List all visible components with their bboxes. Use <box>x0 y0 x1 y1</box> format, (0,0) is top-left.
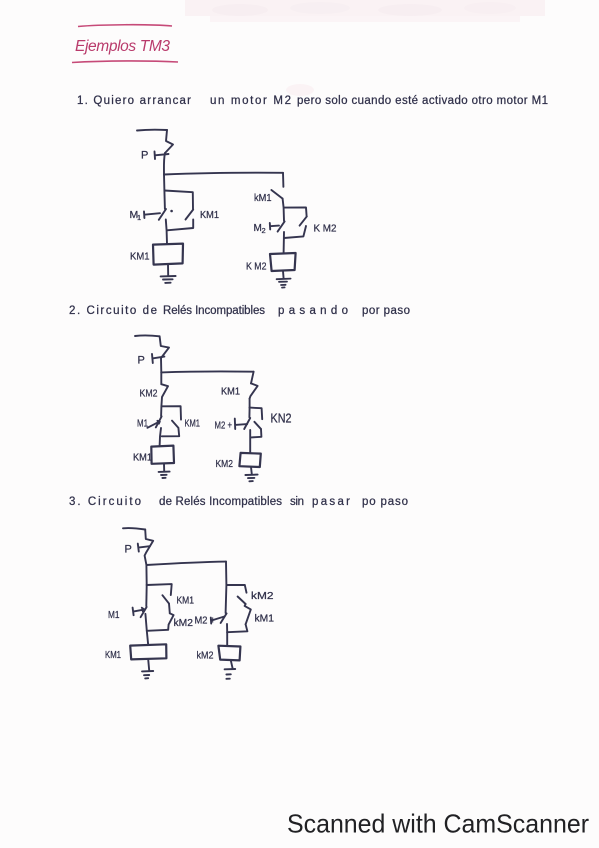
svg-text:M2 +: M2 + <box>215 420 233 432</box>
C1 P actuator <box>155 152 169 160</box>
C3 left main down to loop <box>145 565 147 585</box>
C1 M2 actuator <box>270 223 279 229</box>
svg-text:kM2: kM2 <box>197 650 214 662</box>
C3 wire coil to ground <box>231 660 233 668</box>
svg-text:K M2: K M2 <box>314 223 337 235</box>
C3 ground left <box>142 671 153 678</box>
C3 left seal loop top + right <box>147 584 172 595</box>
svg-text:kM2: kM2 <box>251 590 274 602</box>
C2 wire P to node <box>160 358 162 372</box>
C1 wire node to seal loop <box>163 175 165 191</box>
svg-text:kM2: kM2 <box>174 617 194 629</box>
C2 wire coil to ground <box>250 467 253 474</box>
C3 ground right <box>225 669 236 679</box>
C1 top supply rail <box>137 129 167 132</box>
C3 M1 actuator arrow <box>133 608 145 616</box>
C3 wire M1 to loop bottom <box>145 614 146 631</box>
C2 coil KM1 <box>151 446 174 464</box>
C3 right seal loop lower + bottom <box>227 624 247 632</box>
C2 right seal loop top + right <box>250 408 263 420</box>
C1 seal loop top + right side <box>164 191 193 209</box>
svg-text:Scanned with CamScanner: Scanned with CamScanner <box>287 809 589 839</box>
C2 KM1 interlock contact (NC) right <box>250 383 258 398</box>
C2 ground right <box>245 475 257 482</box>
C1 KM2 seal contact <box>300 216 307 225</box>
svg-text:KM1: KM1 <box>130 251 150 263</box>
C1 wire coil to ground <box>282 271 285 278</box>
C1 wire KM1 to M2 <box>283 199 284 221</box>
C3 labels <box>105 544 274 662</box>
C1 wire to right branch <box>164 173 283 175</box>
C2 top supply rail <box>135 334 160 337</box>
C2 right seal loop lower + bottom <box>251 429 261 437</box>
C1 labels <box>130 150 337 273</box>
svg-text:de Relés Incompatibles: de Relés Incompatibles <box>159 496 282 508</box>
C2 main vertical loop-top to M1 contact <box>160 406 162 416</box>
C3 M2 contact (NO) <box>221 613 227 623</box>
C2 right branch vertical <box>251 372 254 384</box>
C1 M2 contact (NO) <box>278 221 285 231</box>
svg-text:KM2: KM2 <box>140 388 158 400</box>
C3 right main vertical <box>225 585 228 613</box>
C3 wire M2 to loop bottom <box>226 624 228 632</box>
C2 P actuator <box>152 354 164 363</box>
svg-text:KM1: KM1 <box>133 452 152 464</box>
C3 pushbutton P (NC) <box>145 530 154 565</box>
C1 KM1 contact (NO) right branch <box>271 190 282 199</box>
svg-text:Ejemplos TM3: Ejemplos TM3 <box>75 38 170 55</box>
sentence 2 <box>69 305 410 317</box>
svg-text:KM1: KM1 <box>177 595 195 607</box>
faint pink bleed-through top <box>185 0 545 96</box>
svg-text:KN2: KN2 <box>271 412 292 426</box>
C2 M2 contact (NO) <box>244 418 250 429</box>
svg-text:3. Circuito: 3. Circuito <box>69 496 141 508</box>
C3 KM2 interlock (NC) in loop <box>168 613 173 629</box>
svg-text:un motor M2: un motor M2 <box>210 95 291 107</box>
C3 P actuator <box>138 544 150 552</box>
C3 KM1 interlock (NC) in right loop <box>245 604 251 624</box>
C2 left seal loop lower + bottom <box>162 428 179 437</box>
C2 wire M1 to coil <box>160 428 161 446</box>
C3 KM1 seal contact left <box>162 595 169 603</box>
svg-text:KM1: KM1 <box>221 386 240 398</box>
C2 M2 actuator <box>235 419 247 429</box>
C3 M1 contact (NO) <box>141 607 147 617</box>
svg-text:Relés Incompatibles: Relés Incompatibles <box>163 305 265 317</box>
sentence 1 <box>77 95 548 107</box>
C3 coil KM1 <box>130 644 166 659</box>
svg-text:P: P <box>141 150 148 162</box>
C2 left seal loop top + right <box>161 406 181 419</box>
svg-text:P: P <box>125 544 132 556</box>
C3 left seal loop bottom <box>147 630 168 631</box>
C3 main vertical loop-top to M1 contact <box>145 585 147 606</box>
C1 M1 actuator <box>144 212 160 219</box>
C1 wire M2 to coil <box>283 232 285 253</box>
C3 wire to coil <box>226 632 228 645</box>
sentence 3 <box>69 496 408 508</box>
C2 wire to seal loop <box>249 399 251 408</box>
C2 labels <box>133 355 292 471</box>
C3 coil KM2 <box>218 646 240 661</box>
svg-text:KM2: KM2 <box>216 458 234 470</box>
C2 coil KM2 <box>239 453 260 467</box>
C1 seal loop lower right + bottom <box>167 220 193 231</box>
C1 right seal loop top + right <box>284 208 307 217</box>
C1 coil KM1 <box>153 244 183 265</box>
svg-text:M1: M1 <box>137 418 148 430</box>
svg-text:K M2: K M2 <box>246 261 267 273</box>
svg-text:kM1: kM1 <box>255 613 275 625</box>
svg-text:po paso: po paso <box>362 496 408 508</box>
C1 junction dot <box>170 210 173 213</box>
svg-text:KM1: KM1 <box>105 649 121 661</box>
svg-text:KM1: KM1 <box>185 418 201 430</box>
title "Ejemplos TM3" (pink) <box>72 25 178 63</box>
C2 ground left <box>159 472 170 478</box>
C2 wire coil to ground <box>163 464 165 471</box>
C1 KM1 seal contact <box>186 210 194 220</box>
C1 coil KM2 <box>270 253 296 271</box>
svg-text:M1: M1 <box>108 609 120 621</box>
svg-text:por paso: por paso <box>362 305 410 317</box>
C1 M1 contact (NO) on main line <box>159 209 166 220</box>
C2 M1 contact (NO) <box>156 416 162 427</box>
C2 wire M2 to coil <box>249 430 251 453</box>
C3 KM2 seal contact right <box>238 597 246 605</box>
C3 M2 actuator <box>211 617 224 624</box>
C2 M1 actuator arrow <box>147 421 159 428</box>
C1 main vertical loop-top to M1 contact <box>163 191 166 209</box>
C1 wire coil to ground <box>167 265 169 276</box>
C3 right seal loop top + right <box>226 585 246 593</box>
svg-text:1: 1 <box>137 213 141 222</box>
C1 pushbutton P (NC) <box>165 130 173 153</box>
C2 main vertical loop-top to M2 contact <box>248 408 250 418</box>
svg-text:KM1: KM1 <box>200 209 219 221</box>
svg-text:M2 +: M2 + <box>195 615 216 627</box>
C1 right seal loop bottom <box>284 226 306 238</box>
C3 right branch vertical <box>225 562 227 585</box>
C2 pushbutton P (NC) <box>160 336 169 358</box>
C3 top supply rail <box>123 528 145 529</box>
svg-text:pero solo cuando esté activado: pero solo cuando esté activado otro moto… <box>297 95 548 107</box>
svg-text:2: 2 <box>262 226 266 235</box>
C1 wire contact to coil <box>166 220 167 244</box>
C1 right branch vertical from wire <box>282 173 284 187</box>
C3 wire to coil <box>147 631 148 645</box>
C2 KM2 seal contact <box>254 422 260 429</box>
C1 ground right <box>277 279 291 288</box>
C2 KM1 seal contact <box>172 421 178 428</box>
C3 loop right mid <box>168 604 171 614</box>
svg-text:P: P <box>138 355 145 367</box>
svg-text:sin: sin <box>290 496 304 508</box>
C3 wire coil to ground <box>148 659 149 670</box>
C1 wire P to node <box>164 153 165 175</box>
C2 wire to right branch <box>161 370 253 373</box>
svg-text:kM1: kM1 <box>254 193 272 204</box>
C2 KM2 interlock contact (NC) left <box>161 372 168 406</box>
svg-text:2. Circuito de: 2. Circuito de <box>69 305 157 317</box>
C1 ground <box>161 276 176 283</box>
C3 wire to right branch <box>146 562 226 565</box>
